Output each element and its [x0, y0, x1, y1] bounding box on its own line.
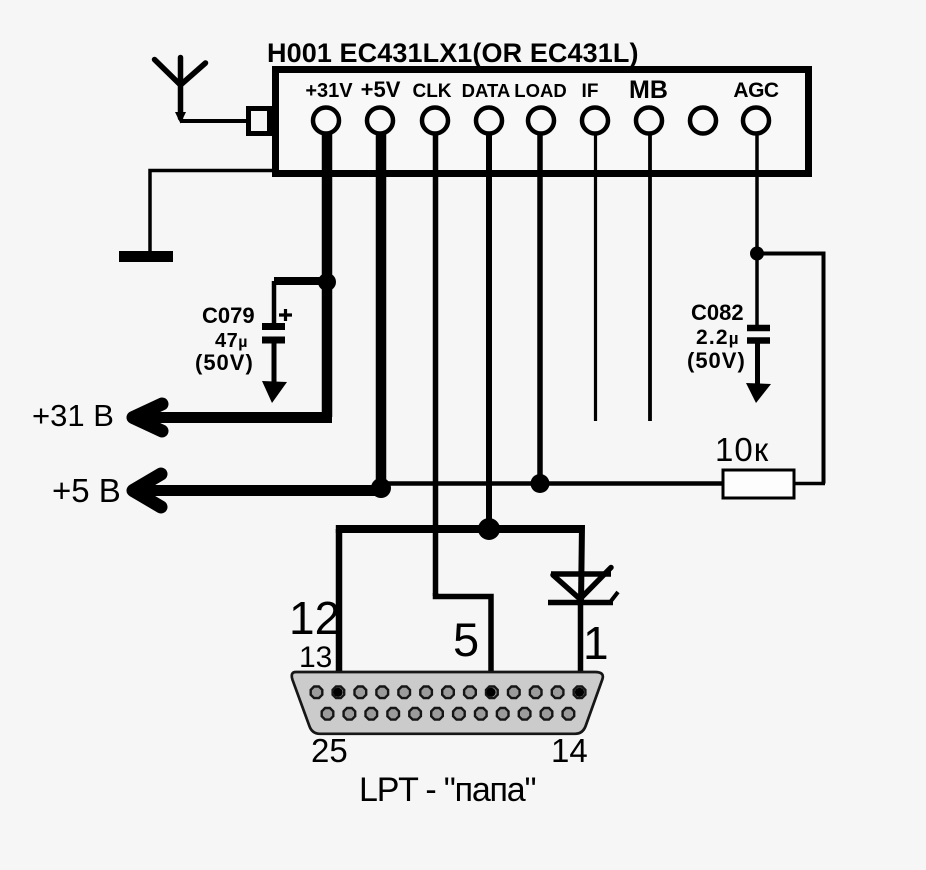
+31V arrowhead [133, 404, 162, 431]
svg-text:CLK: CLK [412, 81, 451, 102]
junction +5V [371, 478, 391, 498]
wire CLK elbow [436, 593, 492, 692]
solder dot pin 1 [575, 688, 584, 697]
svg-text:14: 14 [551, 732, 588, 769]
C079 polarity + [279, 309, 292, 321]
pin circle MB [636, 108, 662, 134]
capacitor C079 bottom plate [262, 337, 285, 344]
diode D1 cathode tick [611, 592, 618, 601]
svg-text:LOAD: LOAD [514, 80, 566, 101]
wire resistor to riser [794, 482, 825, 486]
DB25 pins row 2 (25..14) [322, 708, 575, 720]
wire +5V pin drop [376, 133, 387, 490]
svg-text:MB: MB [629, 76, 668, 104]
wire diode to pin 1 [578, 602, 584, 692]
wire +31V pin drop [322, 133, 333, 417]
svg-text:10к: 10к [715, 431, 769, 468]
wire AGC pin drop [755, 133, 759, 326]
capacitor C079 top plate [262, 323, 285, 330]
svg-text:+31 В: +31 В [32, 398, 114, 433]
svg-text:2.2µ: 2.2µ [696, 326, 740, 349]
+5V arrowhead [133, 474, 161, 507]
pin circle CLK [422, 108, 448, 134]
wire LOAD pin drop [537, 133, 543, 483]
pin circle AGC [743, 108, 769, 134]
svg-text:12: 12 [289, 592, 340, 644]
ground arrow C079 [262, 381, 287, 403]
wire to diode anode [581, 525, 582, 603]
wire IF pin drop [594, 133, 597, 421]
wire MB pin drop [648, 133, 652, 421]
pin circle LOAD [528, 108, 554, 134]
antenna [155, 58, 206, 119]
wire +5V rail to resistor [386, 481, 723, 486]
DB25 pins row 1 (13..1) [311, 687, 586, 699]
wire box to ground [150, 171, 274, 253]
svg-text:(50V): (50V) [195, 350, 254, 375]
diode D1 triangle [553, 568, 611, 600]
wire C079 bottom lead [272, 343, 277, 384]
resistor R1 10k [723, 470, 794, 498]
svg-text:+5 В: +5 В [52, 472, 121, 509]
svg-text:1: 1 [583, 617, 609, 669]
svg-text:AGC: AGC [733, 79, 779, 102]
wire antenna to tuner input [180, 119, 250, 123]
svg-text:25: 25 [311, 732, 348, 769]
wire DATA bus [336, 525, 583, 533]
svg-text:IF: IF [582, 81, 599, 102]
wire riser to AGC junction [757, 252, 826, 256]
svg-text:C082: C082 [691, 300, 744, 325]
tuner module box U1 [276, 70, 809, 174]
wire DATA pin drop [486, 133, 492, 529]
wire right riser [822, 254, 826, 484]
pin circle DATA [476, 108, 502, 134]
svg-text:DATA: DATA [462, 80, 511, 101]
ground [119, 251, 173, 262]
capacitor C082 top plate [747, 325, 770, 332]
svg-text:LPT - "папа": LPT - "папа" [359, 771, 535, 809]
pin circle IF [582, 108, 608, 134]
pin circle unused [690, 108, 716, 134]
diode D1 top bar [551, 571, 611, 577]
junction DATA [478, 518, 500, 540]
junction AGC [750, 247, 764, 261]
pin circle +31V [313, 108, 339, 134]
wire to pin 12 [336, 529, 343, 692]
wire C082 bottom lead [755, 343, 760, 384]
svg-text:5: 5 [453, 613, 479, 666]
ground arrow C082 [746, 383, 771, 403]
svg-text:H001 EC431LX1(OR EC431L): H001 EC431LX1(OR EC431L) [267, 38, 639, 68]
+5V arrow line [139, 485, 381, 496]
svg-text:C079: C079 [202, 303, 255, 328]
+31V arrow line [134, 412, 332, 423]
svg-text:13: 13 [299, 641, 332, 674]
junction LOAD / +5V rail [531, 474, 550, 493]
junction +31V / C079 [318, 273, 336, 291]
diode D1 cathode bar [548, 600, 613, 606]
svg-text:(50V): (50V) [687, 348, 746, 373]
wire C079 top lead [272, 281, 277, 324]
svg-text:+31V: +31V [305, 80, 353, 102]
solder dot pin 12 [333, 688, 342, 697]
capacitor C082 bottom plate [747, 337, 770, 344]
svg-text:+5V: +5V [361, 77, 401, 102]
DB25 connector body [292, 672, 603, 734]
pin circle +5V [367, 108, 393, 134]
antenna input connector [249, 109, 270, 134]
wire CLK pin drop [433, 133, 439, 596]
antenna stem arrow tip [175, 112, 186, 124]
svg-text:47µ: 47µ [215, 330, 248, 352]
wire C079 branch [274, 277, 327, 285]
solder dot pin 5 [486, 688, 495, 697]
